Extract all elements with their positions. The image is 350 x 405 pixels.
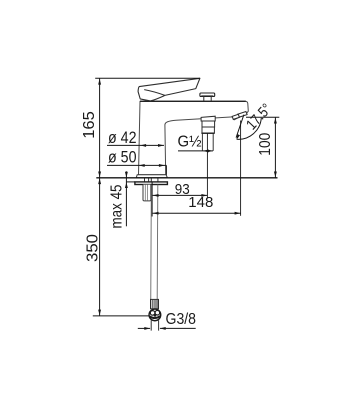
stud thread lines: [145, 185, 147, 201]
deck line: [96, 177, 277, 179]
dimension line ø50: [107, 164, 166, 166]
extension line at aerator level: [246, 116, 279, 118]
dimension max 45: [125, 171, 127, 226]
top extension line (handle top): [95, 77, 200, 79]
hose end nut: [151, 299, 159, 308]
threaded shank between deck and washer: [145, 178, 158, 181]
svg-text:165: 165: [81, 111, 98, 139]
washer / clamping plate: [135, 182, 168, 185]
dimension line ø42: [107, 144, 164, 146]
nut thread lines: [152, 299, 157, 308]
G1/2 nipple: [202, 133, 213, 151]
svg-text:148: 148: [188, 194, 213, 211]
G1/2 centerline extension: [206, 133, 208, 198]
dimension line 100: [274, 117, 276, 178]
angle 17.5 ray: [236, 115, 244, 138]
aerator at spout tip (left cell): [232, 114, 239, 119]
lever handle: [138, 78, 200, 101]
G1/2 port block 3: [202, 127, 214, 133]
extension line from spout tip down: [240, 121, 242, 216]
ball end fitting G3/8: [149, 309, 161, 321]
ball center wedge: [153, 314, 157, 317]
axis extension line below faucet: [151, 182, 153, 217]
flexible hose: [151, 185, 158, 300]
G1/2 port block 2: [202, 121, 215, 127]
dimension line 93: [153, 194, 208, 196]
svg-text:100: 100: [257, 132, 274, 155]
lever crease line: [144, 90, 165, 96]
ball inner right circle: [155, 310, 160, 315]
threaded stud below washer: [143, 185, 151, 201]
G1/2 port block 1: [201, 116, 215, 121]
bottom extension line at ball: [93, 315, 150, 317]
G1/2 nipple top dark edge: [201, 132, 214, 134]
diverter knob cap: [200, 93, 215, 97]
angle arc arrowhead: [236, 134, 240, 140]
ball inner left circle: [150, 311, 155, 316]
spout top edge overlay: [140, 100, 246, 102]
dimension line 165: [99, 78, 101, 178]
angle 17.5 arc: [237, 118, 261, 140]
svg-text:G½: G½: [178, 134, 202, 151]
svg-text:max 45: max 45: [108, 184, 125, 228]
ball lower band: [150, 316, 161, 318]
svg-text:350: 350: [85, 234, 102, 262]
dimension line 148: [153, 212, 241, 214]
aerator at spout tip (right cell): [238, 112, 248, 118]
diverter knob stem: [204, 97, 211, 102]
faucet body and spout outline: [139, 101, 249, 175]
outlet stub extension lines below ball: [151, 320, 158, 330]
dimension line 350: [99, 178, 101, 316]
svg-text:ø 50: ø 50: [108, 149, 137, 167]
svg-text:G3/8: G3/8: [166, 311, 197, 328]
svg-text:ø 42: ø 42: [108, 129, 137, 147]
base flange plate: [136, 175, 167, 178]
